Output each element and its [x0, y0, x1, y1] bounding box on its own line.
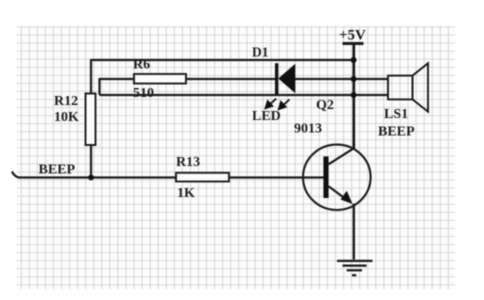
svg-text:1K: 1K [177, 186, 195, 201]
svg-text:D1: D1 [252, 45, 269, 60]
svg-text:BEEP: BEEP [39, 163, 76, 178]
svg-text:10K: 10K [54, 110, 79, 125]
svg-text:9013: 9013 [294, 122, 322, 137]
svg-text:R13: R13 [176, 155, 200, 170]
svg-text:LS1: LS1 [384, 107, 408, 122]
svg-text:R6: R6 [133, 58, 150, 73]
svg-text:LED: LED [252, 109, 281, 124]
svg-text:510: 510 [133, 86, 154, 101]
svg-text:Q2: Q2 [316, 98, 334, 113]
svg-text:R12: R12 [54, 94, 78, 109]
svg-text:BEEP: BEEP [378, 125, 415, 140]
svg-text:+5V: +5V [339, 28, 366, 44]
